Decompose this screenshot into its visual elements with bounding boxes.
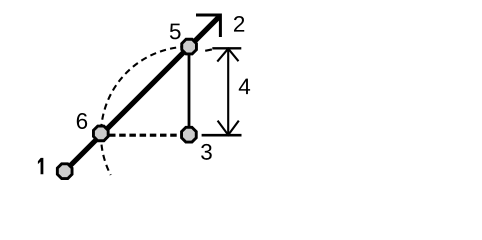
extension tick at node 3 level [202, 134, 242, 137]
label 2 [234, 16, 244, 32]
dashed horizontal line from node 6 to node 3 [109, 134, 181, 137]
thick diagonal line from node 1 to arrow tip [65, 16, 220, 171]
node 1 circle [57, 164, 72, 179]
node 5 circle [182, 39, 197, 54]
open corner arrowhead of line 2 [196, 15, 220, 37]
label 5 [170, 24, 181, 40]
extension tick at node 5 level [212, 47, 241, 49]
node 3 circle [182, 127, 197, 142]
dimension arrowhead up [217, 49, 238, 62]
vertical line from node 5 to node 3 [188, 47, 191, 135]
dimension arrowhead down [218, 121, 239, 135]
label 4 [239, 79, 250, 94]
node 6 circle [93, 126, 108, 141]
dimension line vertical [227, 50, 229, 135]
label 1 [38, 158, 43, 174]
label 3 [201, 144, 212, 160]
arc end dash right of node 5 [205, 49, 212, 50]
label 6 [77, 113, 87, 129]
